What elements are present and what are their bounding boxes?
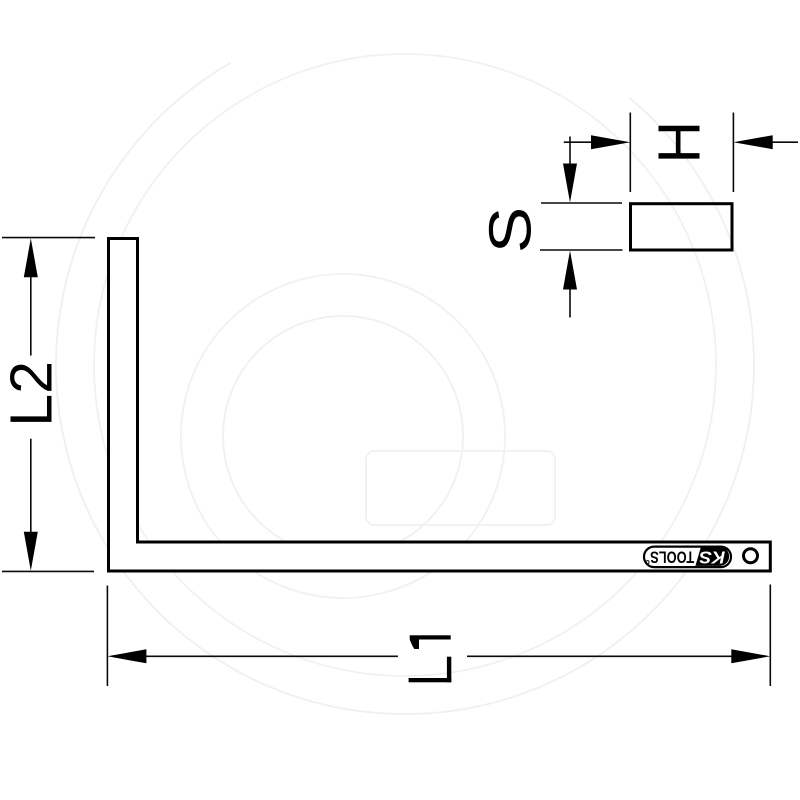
svg-text:H: H [647, 121, 713, 164]
svg-text:L2: L2 [0, 361, 64, 427]
S arrow down [563, 164, 577, 203]
L1 arrow left [107, 649, 146, 663]
watermark inner arc 2 [181, 274, 505, 598]
cross-section rectangle [631, 204, 733, 250]
hole circle [744, 549, 758, 563]
S leader top shaft [569, 137, 571, 167]
L-shape outline [109, 239, 771, 572]
KS TOOLS logo (rotated 180) [644, 547, 731, 568]
L1 arrow right [731, 649, 770, 663]
H extension line left [629, 113, 631, 193]
S extension line top [541, 202, 622, 204]
H dim line right tail [772, 141, 798, 143]
S leader bottom shaft [569, 288, 571, 318]
watermark inner circle [223, 316, 463, 556]
L1 dim line right [467, 655, 732, 657]
H dim line left tail [564, 141, 592, 143]
L1 dim line left [145, 655, 398, 657]
svg-text:S: S [477, 207, 543, 253]
label L1 [409, 635, 452, 682]
L2 dim line lower [30, 439, 32, 533]
watermark big outer arc [56, 63, 754, 714]
L2 arrow up [24, 238, 38, 277]
L1 extension line left [106, 586, 108, 687]
S arrow up [563, 251, 577, 290]
watermark bar [366, 451, 555, 525]
L2 dim line upper [30, 276, 32, 356]
S extension line bottom [540, 249, 623, 251]
H arrow right [733, 135, 772, 149]
L2 arrow down [24, 532, 38, 571]
watermark second arc [94, 54, 716, 676]
L1 extension line right [769, 585, 771, 687]
L2 extension line bottom [2, 570, 94, 572]
H extension line right [732, 113, 734, 193]
svg-text:TOOLS: TOOLS [650, 547, 694, 566]
H arrow left [591, 135, 630, 149]
L2 extension line top [2, 237, 95, 239]
svg-text:KS: KS [699, 548, 725, 568]
